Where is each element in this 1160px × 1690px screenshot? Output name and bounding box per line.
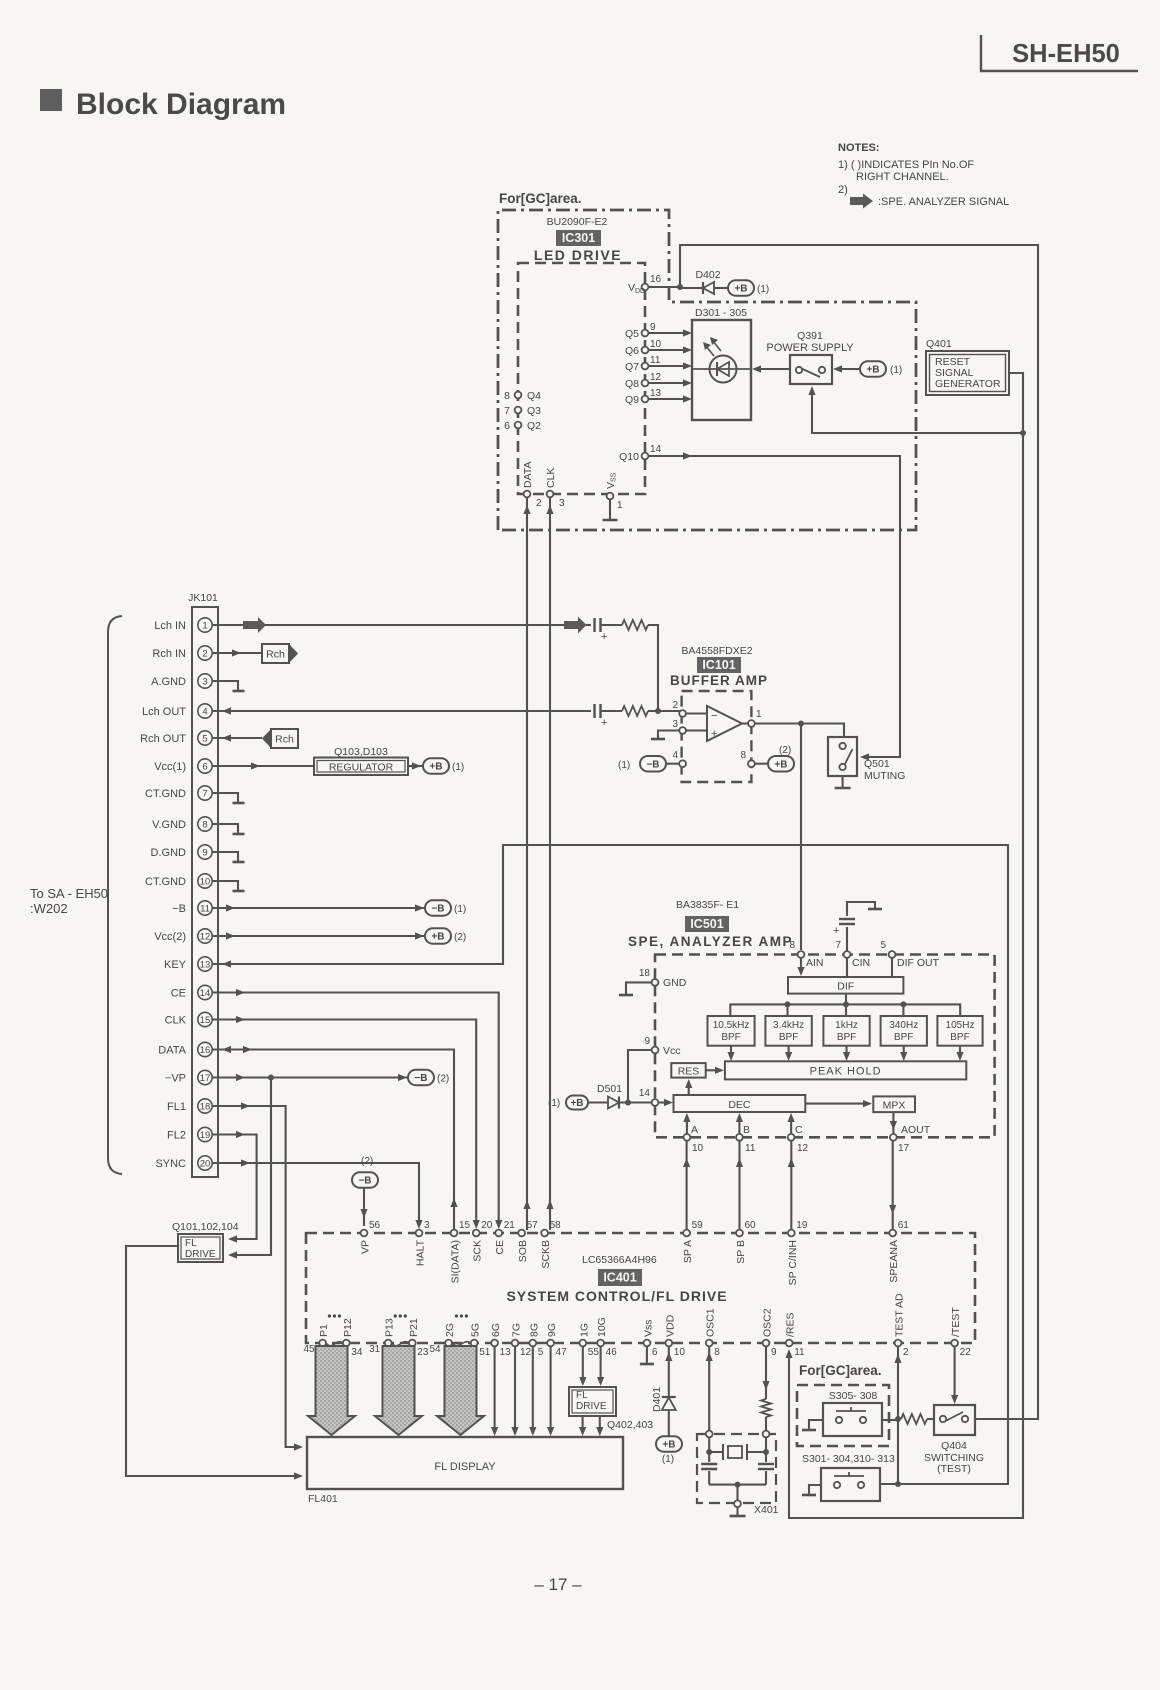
pin HALT 3 of IC401 top — [415, 1220, 431, 1266]
svg-text:IC501: IC501 — [690, 917, 723, 931]
svg-text:10: 10 — [200, 876, 211, 887]
svg-text:BPF: BPF — [837, 1032, 856, 1043]
svg-text:16: 16 — [200, 1045, 211, 1056]
svg-text:15: 15 — [459, 1220, 471, 1231]
wire 105Hz BPF to peak hold — [956, 1046, 963, 1061]
svg-text:DIF: DIF — [837, 981, 854, 993]
svg-text:57: 57 — [527, 1220, 539, 1231]
pin SPEANA 61 of IC401 top — [888, 1220, 909, 1283]
wire regulator to +B — [408, 762, 422, 769]
svg-text:10.5kHz: 10.5kHz — [713, 1020, 750, 1031]
ground at JK101 pin 9 — [212, 852, 245, 862]
pin Q2 6 of IC301 — [504, 420, 541, 432]
svg-text:SP A: SP A — [682, 1240, 694, 1263]
svg-text:DRIVE: DRIVE — [576, 1401, 607, 1412]
svg-text:C: C — [795, 1124, 803, 1136]
ground at JK101 pin 7 — [212, 793, 245, 803]
svg-text:34: 34 — [351, 1347, 363, 1358]
svg-text:1: 1 — [202, 620, 207, 631]
svg-text:11: 11 — [650, 355, 661, 366]
svg-text:51: 51 — [479, 1347, 491, 1358]
pin OSC2 entry X401 — [763, 1431, 770, 1438]
pin OSC2 9 of IC401 bottom — [762, 1308, 778, 1358]
power +B(1) at D501 — [566, 1096, 608, 1110]
svg-text:(1): (1) — [452, 762, 464, 773]
wire DIF OUT to DIF — [891, 958, 893, 977]
pin CLK 3 of IC301 — [545, 468, 565, 509]
pin 9G 47 of IC401 bottom — [546, 1323, 567, 1358]
ground at IC501 pin 18 — [619, 982, 651, 995]
wire SP A IC401 to IC501 — [683, 1141, 690, 1229]
svg-text:Lch IN: Lch IN — [154, 620, 186, 632]
pin 14 of IC501 — [639, 1088, 659, 1106]
pin AIN 8 of IC501 — [789, 940, 823, 969]
svg-text:1G: 1G — [578, 1323, 590, 1337]
svg-text:P21: P21 — [408, 1318, 420, 1337]
pin 10 CT.GND of JK101 — [145, 874, 212, 888]
svg-text:(1): (1) — [454, 904, 466, 915]
pin Q8 12 of IC301 — [625, 372, 662, 390]
ground at IC301 Vss — [603, 499, 618, 520]
svg-text:−B: −B — [431, 904, 444, 915]
power -B(1) — [425, 900, 466, 916]
svg-text:9G: 9G — [546, 1323, 558, 1337]
pin 13 KEY of JK101 — [164, 957, 212, 971]
svg-text:PEAK HOLD: PEAK HOLD — [810, 1066, 882, 1078]
power -B(1) at IC101 — [618, 756, 679, 772]
svg-text:SPE, ANALYZER AMP: SPE, ANALYZER AMP — [628, 934, 793, 949]
pin VP 56 of IC401 top — [360, 1220, 381, 1254]
transistor Q501 muting — [828, 737, 905, 782]
svg-text:Q404: Q404 — [941, 1440, 967, 1452]
svg-text:4: 4 — [672, 750, 678, 761]
svg-text:GND: GND — [663, 977, 687, 989]
capacitor X401 left — [701, 1452, 717, 1485]
wire output to SPE analyzer AIN — [800, 724, 802, 951]
wire bus to 3.4kHz BPF — [786, 1004, 788, 1016]
svg-text:7: 7 — [202, 788, 207, 799]
wire 340Hz BPF to peak hold — [900, 1046, 907, 1061]
svg-text:47: 47 — [556, 1347, 568, 1358]
wire CLK to IC401 SCK — [212, 1016, 480, 1229]
IC401 dashed outline — [306, 1233, 975, 1343]
capacitor X401 right — [758, 1452, 774, 1485]
ground at X401 — [730, 1507, 746, 1516]
pin VDD 10 of IC401 bottom — [664, 1314, 685, 1358]
wire Rch IN — [212, 649, 262, 656]
notes SPE analyzer signal arrow legend — [850, 194, 1009, 209]
IC401 SYSTEM CONTROL/FL DRIVE title — [506, 1288, 727, 1304]
pin 1 Lch IN of JK101 — [154, 618, 212, 632]
svg-text:8: 8 — [714, 1347, 720, 1358]
wire Q401 output to reset rail — [1009, 373, 1023, 433]
pin TEST AD 2 of IC401 bottom — [894, 1293, 910, 1358]
GC area dashed boundary bottom — [797, 1385, 889, 1446]
svg-text:SCKB: SCKB — [540, 1240, 552, 1269]
svg-text:S301- 304,310- 313: S301- 304,310- 313 — [802, 1453, 895, 1465]
ground at IC401 Vss — [640, 1346, 654, 1364]
svg-text:FL2: FL2 — [167, 1130, 186, 1142]
svg-text:17: 17 — [898, 1143, 910, 1154]
wire 10.5kHz BPF to peak hold — [727, 1046, 734, 1061]
svg-text:7: 7 — [835, 940, 841, 951]
wire bus to 1kHz BPF — [845, 1004, 847, 1016]
svg-text:+: + — [711, 728, 717, 740]
wire SCKB to IC301 CLK — [546, 497, 553, 1230]
IC301 label — [556, 230, 601, 246]
wire FL1 to FL display — [212, 1102, 303, 1450]
pin Q9 13 of IC301 — [625, 388, 662, 406]
svg-text:Q10: Q10 — [619, 451, 639, 463]
svg-text:SYSTEM CONTROL/FL DRIVE: SYSTEM CONTROL/FL DRIVE — [506, 1288, 727, 1304]
svg-text:9: 9 — [650, 322, 656, 333]
wire AIN to DIF — [797, 958, 804, 976]
node op-amp output junction — [798, 721, 804, 727]
svg-text:11: 11 — [200, 903, 210, 914]
svg-text:21: 21 — [504, 1220, 516, 1231]
wire FL drive to display a — [579, 1416, 586, 1436]
wire 9G to FL display — [547, 1346, 554, 1436]
ground at CIN cap — [868, 908, 882, 911]
pin 8 V.GND of JK101 — [152, 817, 212, 831]
pin 14 CE of JK101 — [171, 985, 212, 999]
pin 15 CLK of JK101 — [165, 1012, 213, 1026]
svg-text:11: 11 — [745, 1143, 756, 1154]
svg-text:19: 19 — [796, 1220, 808, 1231]
wire KEY to key matrix — [212, 845, 1008, 1484]
svg-text:+: + — [601, 631, 607, 643]
op-amp IC301 dashed outline — [518, 263, 645, 494]
svg-text:5: 5 — [202, 733, 207, 744]
bracket JK101 harness — [108, 616, 122, 1174]
wire S301 to key line — [880, 1483, 898, 1485]
svg-text:IC101: IC101 — [702, 658, 735, 672]
resistor R test — [901, 1414, 927, 1424]
wire Vdd to D402 node — [648, 286, 680, 288]
capacitor on Lch IN path — [595, 618, 623, 643]
svg-text:(2): (2) — [454, 932, 466, 943]
wire resistor to Q404 — [927, 1418, 934, 1420]
svg-text:55: 55 — [588, 1347, 600, 1358]
svg-text:GENERATOR: GENERATOR — [935, 378, 1001, 390]
pin 1 of IC101 — [742, 709, 762, 727]
pin GND 18 of IC501 — [639, 968, 687, 989]
pin 1G 55 of IC401 bottom — [578, 1323, 599, 1358]
wire DATA to IC401 SI — [212, 1046, 458, 1230]
svg-text:IC301: IC301 — [562, 231, 595, 245]
connector JK101 box — [188, 592, 218, 1177]
svg-text:Vcc: Vcc — [663, 1045, 681, 1057]
power +B(1) at regulator — [423, 758, 464, 774]
svg-text:MUTING: MUTING — [864, 770, 905, 782]
crystal X401 resonator — [706, 1437, 769, 1460]
pin Vss 6 of IC401 bottom — [642, 1319, 658, 1358]
svg-text:BUFFER AMP: BUFFER AMP — [670, 673, 768, 688]
wire bus to 340Hz BPF — [902, 1004, 904, 1016]
svg-text:58: 58 — [550, 1220, 562, 1231]
svg-text:1kHz: 1kHz — [835, 1020, 858, 1031]
switch S305-308 — [823, 1390, 882, 1436]
block FL DISPLAY — [307, 1437, 623, 1505]
svg-text:1: 1 — [756, 709, 762, 720]
node reset rail junction — [1020, 430, 1026, 436]
wire Q6 to LED block — [648, 346, 692, 353]
pin 7G 12 of IC401 bottom — [511, 1323, 532, 1358]
svg-text:To SA - EH50: To SA - EH50 — [30, 886, 108, 901]
svg-text:D401: D401 — [651, 1387, 663, 1412]
resistor at OSC2 — [761, 1399, 771, 1431]
svg-text:6G: 6G — [490, 1323, 502, 1337]
node BPF bus B — [843, 1001, 849, 1007]
svg-text:3: 3 — [559, 498, 565, 509]
node Vdd/D402 junction — [677, 284, 683, 290]
pin 8G 5 of IC401 bottom — [528, 1323, 544, 1358]
pin 6G 13 of IC401 bottom — [490, 1323, 511, 1358]
svg-text:Q101,102,104: Q101,102,104 — [172, 1221, 239, 1233]
wire reset rail down to /RES — [785, 433, 1023, 1518]
svg-text:11: 11 — [794, 1347, 805, 1358]
pin Q3 7 of IC301 — [504, 405, 541, 417]
pin 5 Rch OUT of JK101 — [140, 731, 212, 745]
svg-text:13: 13 — [200, 959, 211, 970]
svg-text:Rch: Rch — [275, 733, 294, 745]
power -B(2) at VP — [352, 1156, 378, 1226]
pin 5G 51 of IC401 bottom — [470, 1323, 491, 1358]
resistor on Lch OUT path — [622, 706, 683, 716]
svg-text:Q103,D103: Q103,D103 — [334, 746, 388, 758]
block DEC — [674, 1095, 806, 1112]
pin 6 Vcc(1) of JK101 — [154, 759, 212, 773]
svg-text:7G: 7G — [511, 1323, 523, 1337]
svg-text:SPEANA: SPEANA — [888, 1240, 900, 1283]
svg-text:13: 13 — [500, 1347, 512, 1358]
pin 16 DATA of JK101 — [158, 1042, 212, 1056]
wire SP C IC401 to IC501 — [788, 1141, 795, 1229]
wire X401 ground bus — [709, 1482, 766, 1500]
pin SP A 59 of IC401 top — [682, 1220, 703, 1263]
pin 17 -VP of JK101 — [165, 1070, 212, 1084]
label To SA-EH50 :W202 — [30, 886, 108, 916]
svg-text:AIN: AIN — [806, 957, 824, 969]
pin C 12 of IC501 — [788, 1124, 809, 1154]
pin 4 Lch OUT of JK101 — [142, 704, 212, 718]
svg-text:1: 1 — [617, 500, 623, 511]
pin 3 of IC101 — [672, 719, 707, 734]
svg-text:9: 9 — [771, 1347, 777, 1358]
svg-text:9: 9 — [202, 847, 207, 858]
pin SP C/INH 19 of IC401 top — [787, 1220, 808, 1285]
svg-text:Q5: Q5 — [625, 328, 639, 340]
title Block Diagram — [40, 88, 286, 121]
block MPX — [873, 1096, 915, 1112]
svg-text:54: 54 — [429, 1344, 441, 1355]
svg-text:+B: +B — [734, 284, 747, 295]
svg-text:CIN: CIN — [852, 957, 870, 969]
svg-text:DRIVE: DRIVE — [185, 1249, 216, 1260]
svg-text:HALT: HALT — [415, 1239, 427, 1266]
svg-text:FL401: FL401 — [308, 1493, 338, 1505]
svg-text:FL1: FL1 — [167, 1101, 186, 1113]
svg-text:Rch IN: Rch IN — [152, 648, 186, 660]
wire TEST AD line — [894, 1346, 901, 1484]
svg-text:3.4kHz: 3.4kHz — [773, 1020, 804, 1031]
pin Vcc 9 of IC501 — [644, 1036, 680, 1057]
pin 3 A.GND of JK101 — [151, 674, 212, 688]
svg-text:9: 9 — [644, 1036, 650, 1047]
svg-text:2: 2 — [672, 700, 678, 711]
svg-text:CE: CE — [171, 988, 186, 1000]
svg-text:(1): (1) — [890, 365, 902, 376]
wire 1kHz BPF to peak hold — [843, 1046, 850, 1061]
IC401 part number LC65366A4H96 — [582, 1254, 657, 1266]
wire FL2 to FL drive — [212, 1131, 257, 1243]
svg-text:CLK: CLK — [545, 468, 557, 488]
node Vcc/D501 junction — [625, 1100, 631, 1106]
pin SI(DATA) 15 of IC401 top — [450, 1220, 471, 1283]
pin 2 Rch IN of JK101 — [152, 646, 212, 660]
pin AOUT 17 of IC501 — [890, 1124, 931, 1154]
wire Lch IN with SPE arrow — [212, 617, 564, 633]
block PEAK HOLD — [725, 1061, 966, 1079]
svg-text:340Hz: 340Hz — [889, 1020, 918, 1031]
svg-text:−B: −B — [172, 903, 186, 915]
filter 10.5kHz BPF — [708, 1016, 755, 1046]
wire D301 to Q391 — [752, 365, 790, 372]
svg-text:−: − — [711, 710, 717, 722]
wire Rch OUT — [212, 734, 262, 741]
switch S301-304,310-313 — [802, 1453, 895, 1501]
svg-text:−VP: −VP — [165, 1073, 186, 1085]
svg-text:Vcc(1): Vcc(1) — [154, 761, 186, 773]
wire 1G to FL drive — [579, 1346, 586, 1386]
svg-text:BA3835F- E1: BA3835F- E1 — [676, 899, 739, 911]
svg-text:TEST AD: TEST AD — [894, 1293, 906, 1337]
svg-text:OSC2: OSC2 — [762, 1308, 774, 1337]
block FL DRIVE Q101,102,104 — [172, 1221, 239, 1262]
svg-text:LC65366A4H96: LC65366A4H96 — [582, 1254, 657, 1266]
label For[GC]area top — [499, 191, 582, 206]
svg-text:BU2090F-E2: BU2090F-E2 — [547, 216, 608, 228]
pin 12 Vcc(2) of JK101 — [154, 929, 212, 943]
svg-text:V: V — [628, 282, 635, 294]
ground at JK101 pin 10 — [212, 881, 245, 891]
svg-text:A.GND: A.GND — [151, 676, 186, 688]
svg-text:D301 - 305: D301 - 305 — [695, 307, 747, 319]
IC101 part number BA4558FDXE2 — [681, 645, 752, 657]
pin 11 -B of JK101 — [172, 901, 212, 915]
wire pin14 to DEC — [658, 1099, 673, 1106]
svg-text:Rch OUT: Rch OUT — [140, 733, 186, 745]
svg-text:10G: 10G — [596, 1317, 608, 1337]
wire FL drive output to display — [126, 1246, 303, 1480]
svg-text:5: 5 — [880, 940, 886, 951]
svg-text:+: + — [833, 925, 839, 937]
page header SH-EH50 model box — [981, 35, 1138, 71]
svg-text:20: 20 — [481, 1220, 493, 1231]
svg-text:BPF: BPF — [950, 1032, 969, 1043]
svg-text:RES: RES — [678, 1065, 700, 1077]
wire Q9 to LED block — [648, 395, 692, 402]
svg-text:−B: −B — [414, 1073, 427, 1084]
node TEST AD junction upper — [895, 1416, 901, 1422]
svg-text:2: 2 — [536, 498, 542, 509]
power +B(2) at IC101 — [755, 745, 794, 771]
wire SYNC to IC401 HALT — [212, 1159, 423, 1229]
diode D401 — [651, 1387, 676, 1437]
svg-text:2G: 2G — [444, 1323, 456, 1337]
wire 7G to FL display — [511, 1346, 518, 1436]
pin /RES 11 of IC401 bottom — [785, 1312, 805, 1358]
pin P21 23 of IC401 bottom — [408, 1318, 429, 1358]
pin Q5 9 of IC301 — [625, 322, 656, 340]
wire DEC to RES — [685, 1079, 692, 1095]
svg-text:CE: CE — [494, 1240, 506, 1255]
wire Vcc to D501 node — [628, 1050, 651, 1103]
svg-text:X401: X401 — [754, 1504, 779, 1516]
svg-text:45: 45 — [303, 1344, 315, 1355]
svg-text:Rch: Rch — [266, 648, 285, 660]
svg-text:7: 7 — [504, 405, 510, 417]
svg-text:CLK: CLK — [165, 1015, 187, 1027]
svg-text:31: 31 — [369, 1344, 381, 1355]
svg-text:JK101: JK101 — [188, 592, 218, 604]
svg-text:SCK: SCK — [472, 1240, 484, 1262]
IC401 label — [598, 1269, 642, 1286]
block REGULATOR Q103,D103 — [314, 746, 408, 775]
pin OSC1 entry X401 — [706, 1431, 713, 1438]
svg-text:14: 14 — [639, 1088, 651, 1099]
wire Q7 to LED block — [648, 362, 692, 369]
node key matrix junction — [895, 1481, 901, 1487]
svg-text:6: 6 — [504, 420, 510, 432]
svg-text:RIGHT CHANNEL.: RIGHT CHANNEL. — [856, 171, 949, 183]
svg-text:2: 2 — [903, 1347, 909, 1358]
svg-text:17: 17 — [200, 1073, 211, 1084]
svg-text:5: 5 — [538, 1347, 544, 1358]
svg-text:P13: P13 — [384, 1318, 396, 1337]
IC501 dashed outline — [655, 955, 995, 1138]
svg-text:POWER SUPPLY: POWER SUPPLY — [766, 342, 854, 354]
svg-text:3: 3 — [424, 1220, 430, 1231]
bus arrow 2G-5G to FL display — [437, 1346, 484, 1435]
bus arrow P1-P12 to FL display — [308, 1346, 355, 1435]
svg-text:DATA: DATA — [158, 1045, 186, 1057]
svg-text:2: 2 — [202, 648, 207, 659]
svg-text:/TEST: /TEST — [950, 1307, 962, 1337]
svg-text:Q9: Q9 — [625, 394, 639, 406]
pin /TEST 22 of IC401 bottom — [950, 1307, 971, 1358]
pin 10G 46 of IC401 bottom — [596, 1317, 617, 1358]
pin P1 45 of IC401 bottom — [303, 1324, 330, 1355]
Rch IN tag — [262, 644, 298, 663]
svg-text:OSC1: OSC1 — [705, 1308, 717, 1337]
IC501 SPE ANALYZER AMP title — [628, 934, 793, 949]
wire Q10 to Q501 muting control — [648, 452, 900, 760]
power +B(2) — [425, 928, 466, 944]
svg-text:– 17 –: – 17 – — [534, 1575, 582, 1594]
svg-text:+B: +B — [429, 762, 442, 773]
svg-text:DATA: DATA — [522, 462, 534, 488]
diode D402 — [680, 269, 728, 294]
op-amp U101 triangle — [707, 706, 742, 741]
wire DEC to MPX — [805, 1100, 872, 1107]
node BPF bus A — [785, 1001, 791, 1007]
svg-text:Vss: Vss — [642, 1319, 654, 1337]
svg-text:+B: +B — [774, 759, 787, 770]
svg-text:56: 56 — [369, 1220, 381, 1231]
svg-text:SI(DATA): SI(DATA) — [450, 1240, 462, 1283]
wire OSC1 to X401 — [706, 1346, 713, 1431]
